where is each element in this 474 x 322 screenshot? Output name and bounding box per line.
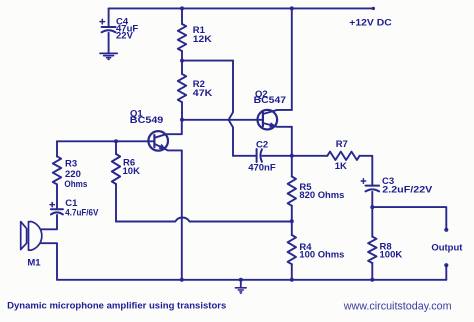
wire C3 to junction xyxy=(371,192,373,207)
wire bottom ground rail xyxy=(57,279,446,281)
svg-text:100 Ohms: 100 Ohms xyxy=(299,250,344,261)
node +12V rail endpoint xyxy=(372,7,375,10)
resistor R2 xyxy=(178,74,186,102)
wire R7 right lead to C3 xyxy=(360,156,373,186)
svg-text:Output: Output xyxy=(431,242,463,253)
svg-text:M1: M1 xyxy=(27,257,41,268)
svg-text:4.7uF/6V: 4.7uF/6V xyxy=(65,207,99,218)
node R1-R2 junction xyxy=(180,59,184,63)
wire R8 bottom lead xyxy=(371,263,373,280)
node output terminal top xyxy=(444,228,448,232)
svg-text:2.2uF/22V: 2.2uF/22V xyxy=(382,184,433,195)
svg-text:Dynamic microphone amplifier u: Dynamic microphone amplifier using trans… xyxy=(7,301,226,312)
node R5/R4/R6-wire junction xyxy=(290,219,294,223)
svg-text:100K: 100K xyxy=(380,249,403,260)
svg-text:470nF: 470nF xyxy=(248,163,276,174)
ground symbol on bottom rail xyxy=(240,280,242,288)
capacitor C1 xyxy=(51,208,63,210)
node rail/Q2 collector junction xyxy=(290,6,294,10)
wire mic bottom terminal to rail xyxy=(41,243,57,280)
wire to C2 left plate xyxy=(233,155,256,157)
wire C4 branch from rail xyxy=(108,8,110,27)
svg-text:10K: 10K xyxy=(123,166,141,177)
wire Q2 base wire xyxy=(182,119,263,121)
svg-text:12K: 12K xyxy=(193,34,212,45)
resistor R8 xyxy=(368,237,376,263)
svg-text:1K: 1K xyxy=(335,161,347,172)
wire R5 bottom lead xyxy=(291,206,293,222)
node emitter/rail junction xyxy=(180,278,184,282)
wire R7 left lead xyxy=(292,155,328,157)
resistor R3 xyxy=(53,156,61,184)
resistor R4 xyxy=(288,235,296,264)
node output terminal bottom xyxy=(444,263,448,267)
svg-text:22V: 22V xyxy=(116,31,134,42)
node R6 top junction xyxy=(114,139,118,143)
svg-text:R3: R3 xyxy=(65,158,77,169)
wire R4 top lead xyxy=(291,221,293,235)
wire C2 right plate to junction xyxy=(262,155,292,157)
node R4/rail junction xyxy=(290,278,294,282)
wire Q1 base wire xyxy=(57,140,154,142)
resistor R6 xyxy=(112,154,120,184)
svg-text:BC547: BC547 xyxy=(254,95,286,106)
wire C2 branch vertical with hop over base wire xyxy=(229,61,233,156)
wire R4 bottom lead xyxy=(291,264,293,280)
wire top +12V rail xyxy=(109,7,374,9)
wire Q2 emitter down xyxy=(291,127,293,156)
wire R2 top lead xyxy=(181,61,183,74)
svg-text:www.circuitstoday.com: www.circuitstoday.com xyxy=(343,301,452,313)
wire R8 top lead xyxy=(371,207,373,237)
resistor R6 top lead xyxy=(115,141,117,154)
wire Q2 collector to rail xyxy=(291,8,293,110)
wire R6 to R5-R4 junction with hop over emitter wire xyxy=(116,217,292,221)
capacitor C2 xyxy=(256,149,258,162)
wire Q1 emitter to bottom rail xyxy=(181,150,183,279)
node ground/rail junction xyxy=(239,278,243,282)
svg-text:C2: C2 xyxy=(256,140,268,151)
wire C4 to ground xyxy=(108,33,110,53)
wire R3 to C1 xyxy=(56,184,58,209)
resistor R5 xyxy=(288,177,296,206)
wire R5 top lead xyxy=(291,156,293,177)
node R8/rail junction xyxy=(370,278,374,282)
svg-text:+12V DC: +12V DC xyxy=(349,17,392,28)
capacitor C4 xyxy=(102,26,116,28)
svg-text:47K: 47K xyxy=(193,88,213,99)
microphone M1 xyxy=(21,222,27,250)
svg-text:820 Ohms: 820 Ohms xyxy=(299,190,344,201)
wire R1 top lead xyxy=(181,8,183,24)
wire R2 bottom lead xyxy=(181,102,183,120)
svg-text:Ohms: Ohms xyxy=(64,179,87,190)
wire R1 bottom lead xyxy=(181,51,183,61)
ground below C4 xyxy=(100,52,117,54)
transistor Q1 xyxy=(148,131,168,151)
node C3/R8/output junction xyxy=(370,205,374,209)
node R2/Q1-collector/Q2-base junction xyxy=(180,118,184,122)
capacitor C3 xyxy=(366,185,380,187)
node rail/R1 junction xyxy=(180,6,184,10)
svg-text:BC549: BC549 xyxy=(130,115,164,126)
wire R6 bottom lead xyxy=(115,184,117,222)
resistor R7 xyxy=(327,152,359,160)
wire C1 to mic corner xyxy=(41,215,57,229)
svg-text:R7: R7 xyxy=(336,139,348,150)
transistor Q2 xyxy=(258,110,278,130)
node C2/emitter/R5/R7 junction xyxy=(290,154,294,158)
resistor R1 xyxy=(178,24,186,51)
wire R3 top lead xyxy=(56,141,58,156)
wire output bottom xyxy=(445,266,447,280)
wire output top xyxy=(372,207,446,229)
wire junction to C2 branch corner xyxy=(182,60,233,62)
